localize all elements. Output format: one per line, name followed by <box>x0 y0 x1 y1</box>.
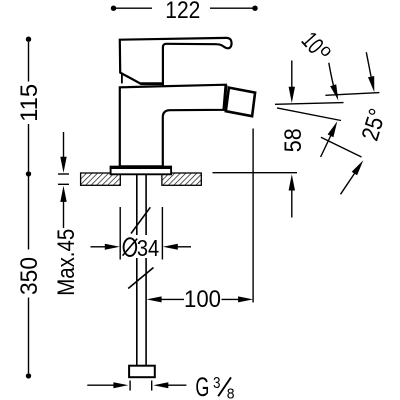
svg-text:122: 122 <box>165 0 200 24</box>
svg-text:Max.45: Max.45 <box>53 229 80 296</box>
svg-text:G: G <box>195 372 209 400</box>
svg-text:115: 115 <box>16 84 43 122</box>
svg-text:100: 100 <box>184 286 221 313</box>
svg-text:34: 34 <box>137 235 159 261</box>
svg-text:3: 3 <box>213 375 221 392</box>
svg-text:58: 58 <box>280 128 307 152</box>
svg-text:8: 8 <box>227 387 235 400</box>
svg-text:25°: 25° <box>357 106 392 144</box>
svg-text:350: 350 <box>16 257 43 295</box>
